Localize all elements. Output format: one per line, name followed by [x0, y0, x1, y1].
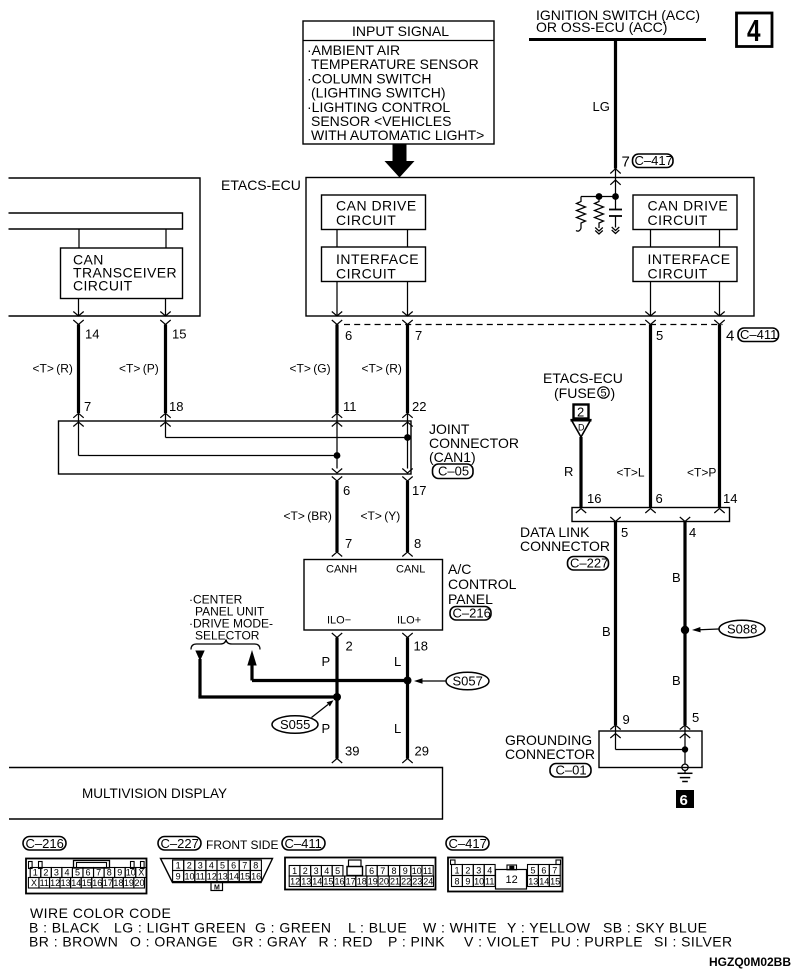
CENTER PANEL UNIT / DRIVE MODE-SELECTOR label: [189, 593, 273, 643]
ground reference 6 (black square): [676, 790, 694, 809]
svg-text:14: 14: [723, 491, 737, 506]
svg-text:6: 6: [231, 861, 236, 871]
connector label C-417: [633, 153, 674, 168]
svg-text:18: 18: [357, 877, 367, 887]
svg-text:8: 8: [455, 876, 460, 886]
svg-text:6: 6: [369, 866, 374, 876]
svg-text:5: 5: [75, 868, 80, 878]
svg-text:2: 2: [43, 868, 48, 878]
svg-text:3: 3: [198, 861, 203, 871]
connector label C-411: [738, 327, 779, 342]
INTERFACE CIRCUIT box (right): [633, 247, 737, 282]
svg-text:19: 19: [124, 878, 134, 888]
svg-text:12: 12: [50, 878, 60, 888]
svg-text:6: 6: [86, 868, 91, 878]
svg-text:GR : GRAY: GR : GRAY: [232, 934, 308, 950]
svg-text:2: 2: [187, 861, 192, 871]
junction dot: [596, 193, 603, 200]
svg-text:<T> (BR): <T> (BR): [284, 509, 332, 523]
svg-text:CONNECTOR: CONNECTOR: [505, 746, 595, 762]
S088 splice label: [692, 620, 765, 638]
svg-text:13: 13: [218, 871, 228, 881]
CAN DRIVE CIRCUIT box (right): [633, 195, 737, 230]
wire B data link pin4 to grounding connector pin 5: [683, 522, 686, 726]
resistor R (right termination): [595, 197, 604, 235]
svg-text:20: 20: [135, 878, 145, 888]
svg-text:6: 6: [680, 792, 688, 809]
svg-text:R: R: [564, 464, 573, 479]
svg-text:11: 11: [423, 866, 432, 876]
svg-text:V : VIOLET: V : VIOLET: [464, 934, 539, 950]
JOINT CONNECTOR (CAN1) box: [59, 421, 412, 474]
svg-text:4: 4: [209, 861, 214, 871]
svg-text:CANL: CANL: [396, 564, 425, 576]
svg-text:16: 16: [335, 877, 345, 887]
svg-text:7: 7: [552, 865, 557, 875]
other CAN ECU box (cut off at left edge): [9, 178, 201, 316]
svg-text:10: 10: [412, 866, 422, 876]
resistor R (left termination): [576, 197, 586, 232]
junction S057: [404, 677, 412, 685]
svg-text:12: 12: [207, 871, 217, 881]
svg-text:9: 9: [403, 866, 408, 876]
svg-text:7: 7: [84, 399, 91, 414]
brace under label: [191, 640, 260, 650]
svg-text:C–216: C–216: [26, 836, 64, 851]
svg-text:L: L: [394, 654, 401, 669]
svg-text:1: 1: [292, 866, 297, 876]
chevrons entering joint connector pins 11,22: [332, 413, 413, 426]
svg-text:11: 11: [40, 878, 49, 888]
svg-text:ETACS-ECU: ETACS-ECU: [221, 177, 301, 193]
JOINT CONNECTOR (CAN1) label: [429, 421, 519, 465]
svg-text:9: 9: [623, 712, 630, 727]
svg-text:10: 10: [126, 868, 136, 878]
svg-text:<T> (R): <T> (R): [33, 362, 73, 376]
svg-text:C–411: C–411: [285, 836, 322, 851]
svg-text:CONNECTOR: CONNECTOR: [520, 538, 610, 554]
A/C CONTROL PANEL box: [304, 560, 443, 631]
svg-text:(FUSE: (FUSE: [554, 385, 596, 401]
svg-text:14: 14: [85, 327, 99, 342]
svg-text:C–417: C–417: [635, 153, 673, 168]
termination network bus wire: [581, 193, 619, 200]
svg-text:16: 16: [587, 491, 601, 506]
svg-text:4: 4: [65, 868, 70, 878]
chevrons leaving joint connector pins 6,17: [332, 469, 413, 482]
svg-text:10: 10: [185, 871, 195, 881]
svg-text:2: 2: [303, 866, 308, 876]
svg-text:P: P: [322, 654, 331, 669]
svg-text:6: 6: [656, 491, 663, 506]
svg-text:4: 4: [487, 865, 492, 875]
wire <T>(P) pin15 to joint connector: [164, 325, 167, 414]
capacitor C (termination): [609, 197, 622, 234]
svg-text:B: B: [602, 624, 611, 639]
wire <T>(R) pin14 to joint connector: [77, 325, 80, 414]
DATA LINK CONNECTOR label: [520, 524, 610, 554]
svg-text:A/C: A/C: [448, 561, 471, 577]
grounding connector internal wires: [616, 738, 689, 764]
svg-text:29: 29: [415, 744, 429, 759]
DATA LINK CONNECTOR box: [572, 508, 730, 522]
svg-text:<T> (P): <T> (P): [119, 362, 159, 376]
svg-text:S057: S057: [453, 674, 483, 689]
svg-text:17: 17: [412, 483, 426, 498]
wire <T>L ETACS pin5 to data link connector pin 6: [649, 325, 652, 508]
junction S055: [333, 693, 341, 701]
svg-text:20: 20: [379, 877, 389, 887]
svg-text:5: 5: [601, 388, 607, 400]
svg-text:CIRCUIT: CIRCUIT: [73, 278, 133, 294]
MULTIVISION DISPLAY box (open left): [9, 768, 443, 820]
chevrons entering A/C panel pins 7,8: [332, 552, 413, 557]
connector drawing C-417: [446, 836, 563, 892]
svg-text:12: 12: [290, 877, 300, 887]
svg-text:13: 13: [301, 877, 311, 887]
ground symbol: [678, 764, 693, 781]
svg-text:L: L: [394, 721, 401, 736]
svg-text:1: 1: [33, 868, 38, 878]
svg-text:MULTIVISION DISPLAY: MULTIVISION DISPLAY: [82, 786, 227, 801]
svg-text:P: P: [322, 721, 331, 736]
svg-text:CIRCUIT: CIRCUIT: [648, 266, 708, 282]
svg-text:HGZQ0M02BB: HGZQ0M02BB: [709, 955, 791, 969]
svg-text:7: 7: [345, 536, 352, 551]
wire from INTERFACE to box edge (left pair): [336, 282, 338, 317]
chevrons entering joint connector pins 7,18: [73, 413, 170, 426]
svg-text:O : ORANGE: O : ORANGE: [130, 934, 218, 950]
connector drawing C-216: [23, 836, 147, 894]
svg-text:15: 15: [82, 878, 92, 888]
joint connector internal wire pin18 to pin22: [166, 426, 411, 441]
svg-text:ILO−: ILO−: [327, 615, 351, 627]
svg-text:3: 3: [54, 868, 59, 878]
svg-text:15: 15: [172, 327, 186, 342]
svg-text:18: 18: [113, 878, 123, 888]
wire <T>(Y) joint connector pin17 to A/C panel pin8: [406, 481, 409, 552]
svg-text:S055: S055: [280, 717, 310, 732]
connector label C-216: [450, 606, 491, 621]
chevrons leaving A/C panel pins 2,18: [332, 633, 413, 638]
svg-text:9: 9: [176, 871, 181, 881]
svg-text:8: 8: [107, 868, 112, 878]
svg-text:PU : PURPLE: PU : PURPLE: [551, 934, 643, 950]
junction S088: [681, 626, 689, 634]
svg-text:4: 4: [747, 13, 761, 48]
wire bus to CAN transceiver: [78, 229, 80, 248]
chevrons leaving data link connector pins 5,4: [610, 517, 690, 522]
svg-text:39: 39: [345, 744, 359, 759]
svg-text:6: 6: [345, 328, 352, 343]
svg-text:<T> (G): <T> (G): [290, 362, 331, 376]
svg-text:17: 17: [103, 878, 113, 888]
svg-text:22: 22: [401, 877, 411, 887]
terminal arrow (down) to drive mode selector: [195, 651, 204, 698]
svg-text:7: 7: [622, 154, 630, 171]
svg-text:C–216: C–216: [453, 606, 491, 621]
chevrons entering grounding connector: [610, 725, 690, 738]
svg-text:14: 14: [539, 876, 549, 886]
wire between CAN DRIVE and INTERFACE (right pair): [650, 230, 652, 248]
joint connector internal wire pin7 to pin11: [79, 426, 341, 459]
svg-text:17: 17: [346, 877, 356, 887]
node IGNITION SWITCH (ACC) OR OSS-ECU (ACC): [529, 7, 706, 40]
input signal arrow into ETACS: [385, 144, 415, 178]
svg-text:15: 15: [550, 876, 560, 886]
svg-text:9: 9: [465, 876, 470, 886]
fusible link triangle D: [571, 420, 592, 437]
svg-text:8: 8: [392, 866, 397, 876]
svg-text:21: 21: [390, 877, 400, 887]
chevrons at ETACS bottom edge pins 6,7,5,4: [332, 312, 725, 325]
svg-text:14: 14: [312, 877, 322, 887]
svg-text:2: 2: [346, 639, 353, 654]
svg-text:1: 1: [455, 865, 460, 875]
wire <T>(R) ETACS pin7 to joint connector pin 22: [406, 325, 409, 414]
wire L from A/C panel down to multivision display: [406, 638, 409, 759]
chevrons entering data link connector: [576, 509, 725, 514]
svg-text:ILO+: ILO+: [397, 615, 421, 627]
svg-text:S088: S088: [727, 622, 757, 637]
connector chevron above ETACS box edge: [610, 169, 620, 174]
S057 splice label: [414, 672, 489, 690]
svg-text:P : PINK: P : PINK: [388, 934, 445, 950]
svg-text:18: 18: [169, 399, 183, 414]
svg-text:R : RED: R : RED: [319, 934, 374, 950]
wire color code legend: [29, 905, 733, 950]
chevrons at left box bottom edge pins 14,15: [73, 312, 170, 325]
svg-text:5: 5: [220, 861, 225, 871]
CAN TRANSCEIVER CIRCUIT box: [61, 248, 183, 299]
connector drawing C-227: [158, 836, 278, 891]
S055 splice label: [272, 700, 334, 733]
INTERFACE CIRCUIT box (left): [322, 247, 426, 282]
svg-text:18: 18: [414, 639, 428, 654]
svg-text:OR OSS-ECU (ACC): OR OSS-ECU (ACC): [536, 19, 667, 35]
svg-text:): ): [611, 385, 616, 401]
svg-text:<T> (Y): <T> (Y): [361, 509, 401, 523]
wire B data link pin5 to grounding connector pin 9: [614, 522, 617, 726]
svg-text:FRONT SIDE: FRONT SIDE: [206, 838, 278, 852]
svg-text:19: 19: [368, 877, 378, 887]
svg-text:16: 16: [92, 878, 102, 888]
chevrons entering multivision display: [332, 759, 413, 764]
svg-text:C–227: C–227: [161, 836, 199, 851]
svg-text:9: 9: [117, 868, 122, 878]
svg-text:C–05: C–05: [438, 464, 469, 479]
svg-text:2: 2: [465, 865, 470, 875]
svg-text:CONTROL: CONTROL: [448, 576, 517, 592]
connector label C-01: [550, 763, 591, 778]
svg-text:16: 16: [251, 871, 261, 881]
svg-text:14: 14: [71, 878, 81, 888]
svg-text:4: 4: [726, 328, 734, 345]
svg-text:5: 5: [335, 866, 340, 876]
A/C CONTROL PANEL label: [448, 561, 517, 607]
GROUNDING CONNECTOR box: [599, 731, 702, 768]
wire from drive mode selector to P wire (S055): [198, 695, 337, 698]
svg-text:2: 2: [577, 405, 584, 420]
wire <T>(G) ETACS pin6 to joint connector pin 11: [335, 325, 338, 414]
svg-text:22: 22: [412, 399, 426, 414]
svg-text:C–411: C–411: [740, 327, 777, 342]
svg-text:SELECTOR: SELECTOR: [195, 629, 260, 643]
svg-text:C–417: C–417: [449, 836, 487, 851]
connector C-411 dashed line: [344, 324, 723, 326]
svg-text:12: 12: [506, 874, 518, 886]
svg-text:CANH: CANH: [326, 564, 357, 576]
svg-text:SI : SILVER: SI : SILVER: [654, 934, 733, 950]
connector chevron below ETACS box edge: [610, 180, 620, 185]
svg-text:3: 3: [476, 865, 481, 875]
terminal arrow (up) to center panel unit: [247, 650, 256, 681]
svg-text:15: 15: [240, 871, 250, 881]
ETACS-ECU box U1: [306, 178, 754, 317]
svg-text:7: 7: [242, 861, 247, 871]
svg-text:B: B: [672, 673, 681, 688]
svg-text:7: 7: [96, 868, 101, 878]
svg-text:1: 1: [176, 861, 181, 871]
svg-text:BR : BROWN: BR : BROWN: [29, 934, 118, 950]
svg-text:8: 8: [414, 536, 421, 551]
svg-text:5: 5: [531, 865, 536, 875]
svg-text:5: 5: [656, 328, 663, 343]
svg-text:X: X: [138, 868, 144, 878]
fuse 2 symbol: [574, 405, 589, 420]
wire R from fuse to data link connector pin 16: [579, 437, 582, 508]
svg-text:ETACS-ECU: ETACS-ECU: [543, 370, 623, 386]
svg-text:D: D: [578, 423, 585, 433]
svg-text:4: 4: [324, 866, 329, 876]
connector label C-227: [568, 556, 609, 571]
svg-text:23: 23: [412, 877, 422, 887]
svg-text:15: 15: [323, 877, 333, 887]
svg-text:13: 13: [528, 876, 538, 886]
svg-text:8: 8: [253, 861, 258, 871]
joint connector internal through-wires: [336, 426, 338, 469]
wire from center panel unit to L wire (S057): [252, 679, 408, 682]
svg-text:11: 11: [343, 399, 357, 414]
svg-text:13: 13: [61, 878, 71, 888]
svg-text:CIRCUIT: CIRCUIT: [336, 212, 396, 228]
svg-text:<T> (R): <T> (R): [362, 362, 402, 376]
wire LG from ignition switch: [614, 40, 617, 169]
svg-text:LG: LG: [593, 99, 610, 114]
wire from INTERFACE to box edge (right pair): [650, 282, 652, 317]
svg-text:24: 24: [423, 877, 433, 887]
svg-text:5: 5: [692, 710, 699, 725]
wire between CAN DRIVE and INTERFACE (left pair): [336, 230, 338, 248]
junction dot: [612, 193, 619, 200]
svg-text:6: 6: [541, 865, 546, 875]
CAN DRIVE CIRCUIT box (left): [322, 195, 426, 230]
svg-text:7: 7: [415, 328, 422, 343]
wire P from A/C panel down to multivision display: [335, 638, 338, 759]
wire <T>P ETACS pin4 to data link connector pin 14: [718, 325, 721, 508]
ETACS-ECU (FUSE 5) source label: [543, 370, 623, 401]
svg-text:INPUT SIGNAL: INPUT SIGNAL: [352, 23, 449, 39]
svg-text:10: 10: [474, 876, 484, 886]
page reference box 4: [737, 13, 773, 48]
svg-text:B: B: [672, 570, 681, 585]
svg-text:7: 7: [380, 866, 385, 876]
svg-text:X: X: [31, 878, 37, 888]
INPUT SIGNAL box: [303, 21, 494, 144]
connector label C-05: [433, 464, 474, 479]
svg-text:4: 4: [689, 525, 696, 540]
svg-text:C–227: C–227: [570, 556, 608, 571]
svg-text:M: M: [214, 884, 220, 891]
connector drawing C-411: [282, 836, 436, 890]
wire <T>(BR) joint connector pin6 to A/C panel pin7: [335, 481, 338, 552]
svg-text:11: 11: [196, 871, 205, 881]
svg-text:WITH AUTOMATIC LIGHT>: WITH AUTOMATIC LIGHT>: [311, 127, 484, 143]
svg-text:<T>L: <T>L: [617, 466, 645, 480]
svg-text:CIRCUIT: CIRCUIT: [336, 266, 396, 282]
svg-text:6: 6: [343, 483, 350, 498]
wire CAN transceiver to box edge: [78, 299, 80, 316]
GROUNDING CONNECTOR label: [505, 732, 595, 762]
svg-text:11: 11: [485, 876, 494, 886]
svg-text:14: 14: [229, 871, 239, 881]
svg-text:3: 3: [314, 866, 319, 876]
svg-text:<T>P: <T>P: [687, 466, 716, 480]
svg-text:C–01: C–01: [556, 763, 587, 778]
svg-text:5: 5: [621, 525, 628, 540]
svg-text:CIRCUIT: CIRCUIT: [648, 212, 708, 228]
